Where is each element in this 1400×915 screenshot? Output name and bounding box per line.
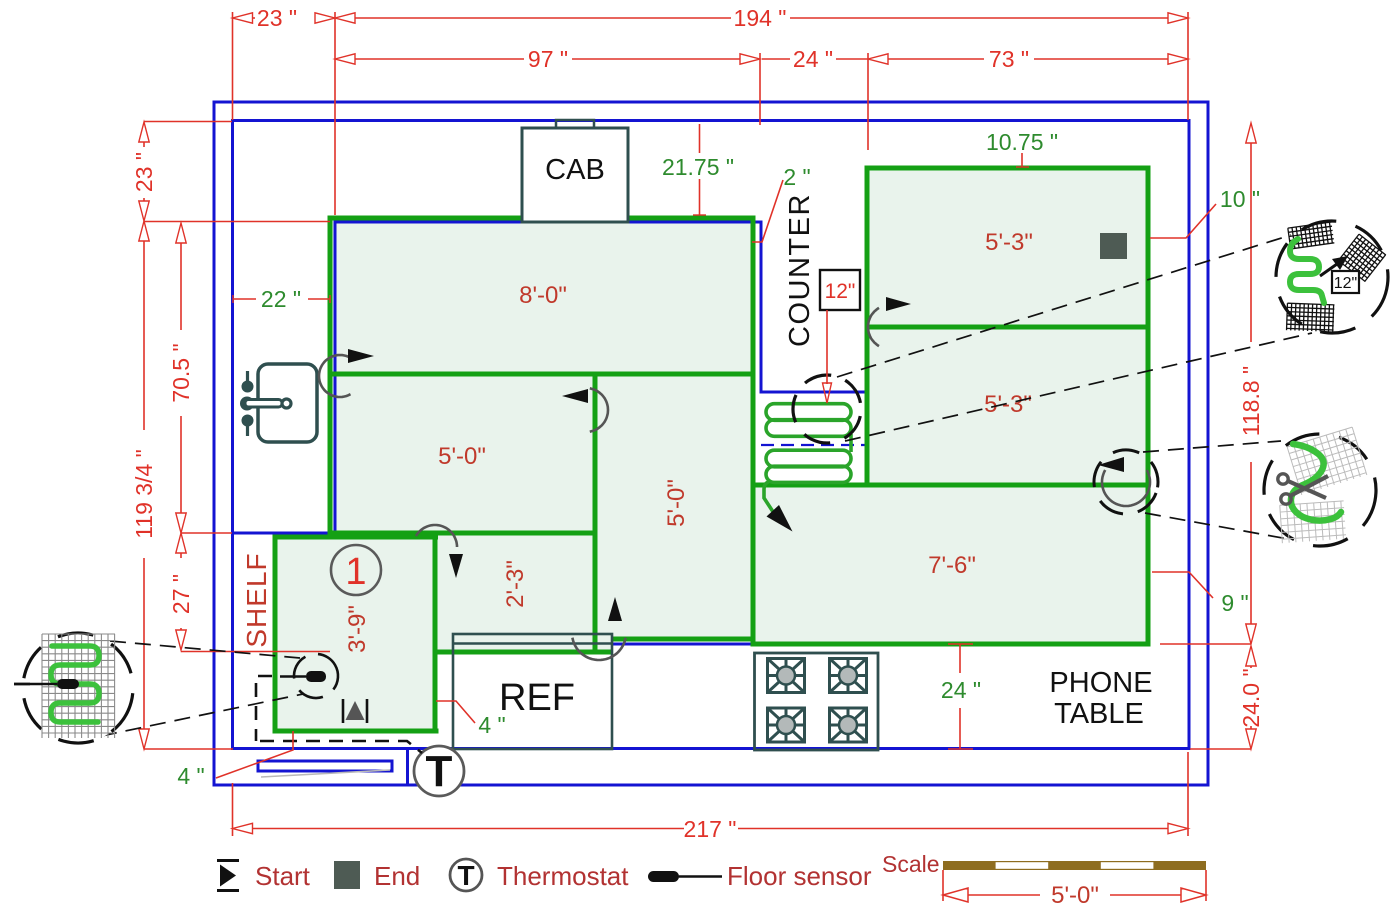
detail circle left (floor sensor) [11, 621, 146, 756]
extension x=232.5 bottom [232, 783, 234, 836]
mat divider x=435 [433, 531, 438, 734]
svg-text:Start: Start [255, 861, 311, 891]
start symbol in mat 3'-9" [343, 699, 367, 723]
leader 4 inch green right [436, 701, 475, 723]
extension line y=749 left [144, 748, 233, 750]
outer wall [214, 102, 1208, 785]
mat 5'-3" upper fill [867, 168, 1148, 327]
cabinet CAB box [522, 120, 628, 222]
junction arc 1 at mat A left [319, 355, 351, 397]
svg-text:2'-3": 2'-3" [502, 560, 529, 608]
extension y=749 right [1190, 748, 1251, 750]
svg-text:23 ": 23 " [131, 152, 157, 192]
extension line x=868 [867, 53, 869, 150]
dimension 21.75 inch green [699, 124, 701, 153]
svg-text:CAB: CAB [545, 154, 605, 186]
svg-text:9 ": 9 " [1221, 590, 1248, 616]
cable exit into 7'-6" mat [764, 482, 773, 511]
svg-text:119 3/4 ": 119 3/4 " [131, 449, 157, 539]
dashed leader lines serpentine detail [837, 235, 1291, 377]
svg-text:23 ": 23 " [257, 5, 297, 31]
mat 5'-3" left border [865, 166, 870, 488]
svg-text:7'-6": 7'-6" [928, 552, 976, 579]
mat 2'-3" fill [436, 533, 595, 653]
dashed cable to thermostat [260, 741, 422, 753]
legend thermostat symbol [450, 859, 482, 891]
mat 3'-9" fill [275, 537, 436, 731]
extension line x=760 [759, 53, 761, 125]
svg-text:5'-0": 5'-0" [438, 443, 486, 470]
mat A/B left border [328, 216, 333, 536]
sink [240, 364, 317, 442]
junction arc 6 at 7'-6" right [1102, 470, 1150, 506]
extension line x=335 [334, 12, 336, 215]
svg-text:118.8 ": 118.8 " [1238, 366, 1264, 436]
dimension 73 inch [888, 58, 984, 60]
svg-text:12": 12" [1334, 275, 1357, 292]
dashed junction circle right [1085, 441, 1167, 523]
dimension 10.75 inch green [1021, 153, 1023, 167]
window sill gray line [261, 770, 390, 777]
divider x=595 [593, 374, 598, 653]
junction arc 4 at middle bottom [572, 638, 625, 660]
svg-text:5'-3": 5'-3" [985, 229, 1033, 256]
dimension 24 inch green stove [948, 643, 973, 645]
junction arc 5 at mat 5'-3" divider [868, 308, 879, 346]
dashed junction circle at serpentine [787, 369, 868, 450]
leader 2 inch green [752, 180, 783, 242]
svg-text:97 ": 97 " [528, 46, 568, 72]
mat 5'-0" middle fill [595, 374, 753, 639]
window in bottom wall [258, 761, 392, 771]
12 inch leader arrow [826, 310, 828, 384]
svg-text:8'-0": 8'-0" [519, 282, 567, 309]
mat 3'-9" bottom border [273, 729, 439, 734]
mat right border x=1148 [1146, 166, 1151, 647]
dimension 194 inch [355, 17, 731, 19]
detail circle top right (start with 12") [1269, 214, 1395, 340]
junction arc 2 at divider [590, 388, 608, 431]
mat 5'-3" lower fill [867, 327, 1148, 485]
extension y=651.5 [181, 651, 330, 653]
mat 8'-0" fill [330, 218, 753, 374]
extension line y=221.5 [144, 221, 330, 223]
svg-text:70.5 ": 70.5 " [168, 343, 194, 402]
svg-text:12": 12" [825, 280, 856, 303]
svg-text:21.75 ": 21.75 " [662, 154, 734, 180]
dimension 23 inch left [144, 121, 232, 123]
legend floor sensor symbol [648, 871, 679, 882]
hidden counter line (dashed blue) [761, 444, 867, 446]
svg-text:5'-0": 5'-0" [663, 479, 690, 527]
flow arrow into 7'-6" mat [767, 505, 793, 532]
mat 7'-6" fill [753, 485, 1148, 644]
svg-text:T: T [426, 747, 453, 796]
junction arc 3 at x=435 [416, 525, 457, 547]
extension y=533 [181, 532, 232, 534]
mat 7'-6" bottom border [751, 642, 1151, 647]
scissors icon [1278, 474, 1328, 504]
svg-text:10 ": 10 " [1220, 186, 1260, 212]
leader 9 inch green [1152, 572, 1213, 598]
dimension 119 3/4 inch [143, 241, 145, 430]
dashed sensor zone rectangle [256, 676, 272, 741]
divider 5'-3"/5'-3" [867, 325, 1148, 330]
svg-text:5'-3": 5'-3" [984, 391, 1032, 418]
mat middle bottom border [612, 637, 756, 642]
leader 4 inch green left [216, 731, 293, 778]
svg-text:217 ": 217 " [684, 816, 737, 842]
svg-text:T: T [457, 860, 474, 891]
svg-text:1: 1 [345, 551, 366, 593]
12 inch leader box [820, 270, 860, 310]
inner wall [233, 121, 1190, 749]
sensor detail mesh grid [42, 634, 115, 738]
svg-text:End: End [374, 861, 420, 891]
mat 2'-3" bottom border [435, 650, 612, 655]
detail circle right (scissors cut) [1261, 427, 1379, 549]
svg-text:SHELF: SHELF [241, 552, 272, 647]
counter edge line (left+top of mats) [233, 168, 867, 533]
legend end symbol [334, 861, 360, 889]
extension line x=232.5 [232, 12, 234, 120]
svg-text:27 ": 27 " [168, 574, 194, 614]
dimension 24 inch top [762, 58, 790, 60]
svg-text:5'-0": 5'-0" [1051, 882, 1099, 909]
divider y=485 top of 7'-6" [751, 483, 1151, 488]
divider 8'-0"/5'-0" [330, 372, 753, 377]
mat 3'-9" top border [275, 535, 438, 540]
mat A top border [328, 216, 756, 221]
svg-text:24.0 ": 24.0 " [1238, 668, 1264, 727]
svg-text:73 ": 73 " [989, 46, 1029, 72]
svg-text:22 ": 22 " [261, 286, 301, 312]
svg-text:PHONE: PHONE [1049, 667, 1152, 699]
floor sensor symbol [306, 671, 326, 682]
scale dimension 5'-0" [942, 870, 944, 901]
scissors detail mesh upper [1287, 427, 1367, 495]
divider 5'-0"/shelf y=533 [328, 531, 598, 536]
stove [755, 653, 879, 750]
svg-text:4 ": 4 " [478, 712, 505, 738]
svg-text:TABLE: TABLE [1054, 698, 1144, 730]
circled 1 [331, 545, 381, 595]
scissors detail mesh lower [1280, 501, 1346, 543]
refrigerator REF box [453, 634, 612, 749]
svg-text:24 ": 24 " [793, 46, 833, 72]
dimension 22 inch green [233, 298, 256, 300]
mat 5'-3" top border [865, 166, 1151, 171]
dashed leader lines sensor detail [110, 641, 300, 658]
svg-text:3'-9": 3'-9" [344, 605, 371, 653]
svg-text:Thermostat: Thermostat [497, 861, 629, 891]
svg-text:COUNTER: COUNTER [784, 193, 816, 347]
svg-text:4 ": 4 " [177, 763, 204, 789]
mat right border x=753 [751, 216, 756, 645]
dimension 70.5 inch [176, 223, 186, 243]
wall partition left of thermostat [406, 749, 409, 784]
svg-text:194 ": 194 " [734, 5, 787, 31]
mat 3'-9" left border [273, 535, 278, 734]
counter front edge under stove [611, 643, 753, 646]
thermostat circle [414, 746, 464, 796]
extension line x=1188 [1187, 12, 1189, 120]
dashed circle around sensor [286, 646, 346, 706]
scale bar [943, 861, 1206, 870]
mat middle notch fill [595, 639, 612, 652]
extension y=644 right [1160, 643, 1251, 645]
svg-text:REF: REF [499, 677, 575, 719]
svg-text:Scale: Scale [882, 851, 940, 877]
svg-text:Floor sensor: Floor sensor [727, 861, 872, 891]
dashed leader lines scissors detail [1143, 441, 1281, 452]
start detail woven mat patches [1288, 222, 1334, 249]
svg-text:24 ": 24 " [941, 677, 981, 703]
svg-text:10.75 ": 10.75 " [986, 129, 1058, 155]
end symbol square in mat 5'-3" [1100, 233, 1127, 259]
svg-text:2 ": 2 " [783, 164, 810, 190]
extension x=1188 bottom [1187, 752, 1189, 836]
mat 5'-0" left fill [330, 374, 595, 533]
dimension 118.8 inch [1246, 123, 1256, 143]
heating cable serpentine at start zone [766, 404, 851, 483]
legend start symbol [217, 861, 239, 891]
stove burners [768, 659, 805, 693]
leader 10 inch green [1150, 204, 1216, 238]
